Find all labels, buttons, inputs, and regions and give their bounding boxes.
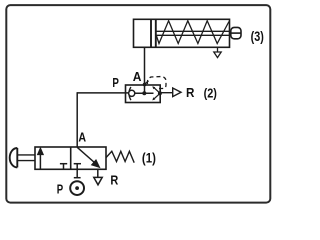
push button cap [10,148,18,167]
svg-text:(3): (3) [251,29,264,44]
border frame [6,5,270,203]
valve V1 exhaust path diagonal arrow [77,147,99,167]
valve V1 body [35,147,106,169]
valve V2 junction dot R [158,91,162,95]
wire: cylinder port to valve V2 [144,47,146,93]
rod end knob [231,27,241,38]
cylinder exhaust vent [214,47,221,57]
valve V2 poppet chevron lower [152,94,160,101]
svg-text:(1): (1) [142,150,156,165]
svg-text:P: P [57,181,64,196]
valve V1 return spring [106,151,134,162]
valve V2 ball [129,90,135,96]
valve V1 flow arrow up [38,148,44,169]
valve V2 pilot dashed box [146,77,167,89]
valve V2 center line [135,92,154,94]
wire: valve V1 R stub [97,169,99,177]
push button plunger [18,155,35,161]
svg-text:A: A [133,69,142,84]
valve V2 seat arc [129,87,131,100]
valve V1 blocked port T left [60,164,67,169]
junction dot pilot tap [143,83,147,87]
pressure source dot [75,186,79,190]
pressure source circle [70,181,84,195]
supply bar above source [74,177,81,179]
quick exhaust valve V2 body [126,85,161,103]
svg-text:R: R [186,85,195,100]
svg-text:(2): (2) [204,86,217,100]
valve V2 poppet chevron upper [152,86,160,93]
return spring [157,21,230,44]
svg-text:P: P [112,75,119,90]
svg-text:R: R [110,173,118,188]
valve V2 P line from left [77,92,129,94]
valve V1 divider [70,147,72,169]
valve V1 blocked port T right (P) [74,164,81,178]
cylinder C (3) body [134,19,230,47]
wire: valve V1 A port up and right to valve V2 P [76,92,78,147]
wire: valve V2 to exhaust R [160,92,173,94]
valve V2 junction dot A [142,91,146,95]
exhaust triangle R1 [94,177,102,184]
exhaust triangle R2 [173,88,181,97]
cylinder piston [151,19,156,47]
cylinder piston rod [157,31,232,35]
svg-text:A: A [78,129,86,144]
